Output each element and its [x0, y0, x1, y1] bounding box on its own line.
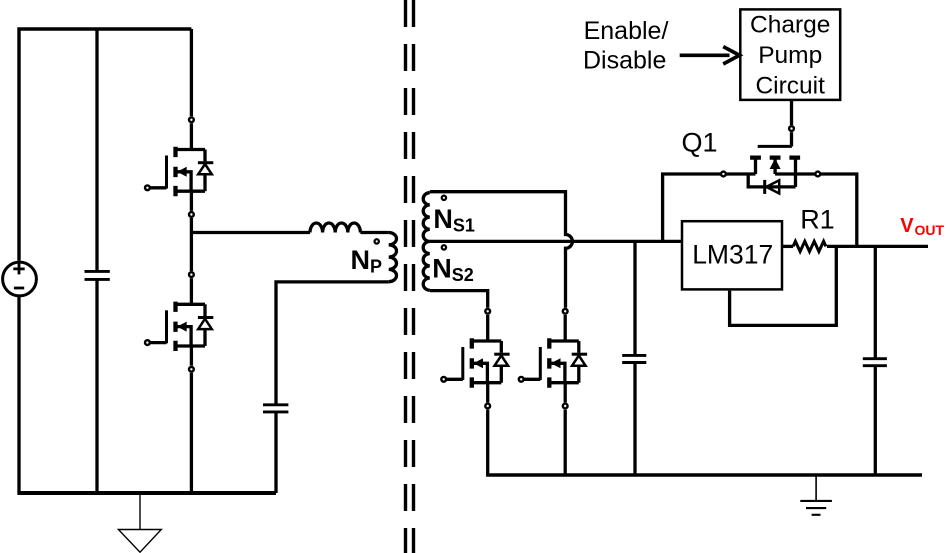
wire capacitor C1 branch top: [95, 29, 98, 271]
svg-text:Enable/: Enable/: [584, 17, 669, 45]
wire capacitor C1 branch bottom: [95, 280, 98, 494]
wire output rail VOUT: [827, 245, 928, 248]
transformer secondary winding NS2: [423, 241, 430, 290]
wire Q1 source to output rail: [820, 174, 857, 246]
transistor Q4 sync rectifier: [441, 309, 509, 409]
wire rail to Q1 drain lead: [663, 174, 721, 241]
wire NS1 top to rectifier Q5 drain: [430, 192, 573, 308]
transistor Q3 low-side MOSFET: [145, 272, 213, 372]
wire NS2 bottom to rectifier Q4 drain: [430, 291, 488, 308]
ground primary: [118, 493, 161, 552]
wire inductor to primary winding: [360, 231, 388, 234]
svg-text:Pump: Pump: [758, 42, 822, 69]
wire LM317 out lead: [782, 245, 793, 248]
wire bottom rail secondary: [486, 473, 922, 477]
wire capacitor C4 branch top: [874, 246, 877, 358]
svg-text:Charge: Charge: [750, 11, 830, 38]
wire Q4 source to bottom rail: [486, 410, 489, 475]
capacitor C2: [263, 405, 288, 412]
svg-text:R1: R1: [800, 204, 835, 234]
inductor series primary: [310, 223, 360, 233]
wire primary winding return: [276, 282, 389, 405]
svg-text:NP: NP: [351, 245, 383, 277]
wire Q5 source to bottom rail: [564, 410, 567, 475]
wire bottom rail primary: [17, 491, 276, 495]
transistor Q1 pass MOSFET: [721, 126, 820, 194]
resistor R1: [793, 241, 826, 251]
wire top rail primary: [19, 29, 191, 261]
node NS1 dot: [442, 196, 446, 200]
capacitor C3: [622, 355, 646, 362]
transformer primary winding NP: [389, 233, 397, 282]
node phase junction wire to inductor: [191, 231, 310, 234]
transistor Q5 sync rectifier: [519, 309, 587, 409]
wire capacitor C3 branch bottom: [633, 363, 636, 475]
transformer secondary winding NS1: [423, 193, 430, 242]
svg-text:Disable: Disable: [583, 46, 666, 74]
wire top rail to Q2 drain: [190, 29, 193, 116]
regulator U1 LM317 box: [682, 221, 782, 289]
svg-text:NS2: NS2: [432, 253, 474, 285]
wire LM317 adj feedback loop: [730, 246, 837, 325]
capacitor C4: [863, 359, 887, 366]
wire voltage source to bottom rail: [17, 296, 20, 493]
svg-text:VOUT: VOUT: [900, 215, 944, 238]
wire Q2 source to mid node: [190, 218, 193, 271]
svg-text:NS1: NS1: [433, 204, 475, 236]
wire center tap rail: [430, 240, 682, 243]
wire capacitor C3 branch top: [633, 241, 636, 355]
wire charge pump output to Q1 gate: [790, 100, 793, 125]
charge pump circuit box: [740, 9, 840, 100]
svg-text:Circuit: Circuit: [755, 72, 825, 99]
capacitor C1: [85, 271, 110, 279]
voltage source V1: [3, 262, 37, 296]
wire capacitor C4 branch bottom: [874, 366, 877, 475]
ground earth secondary: [800, 476, 832, 515]
wire capacitor C2 to bottom rail: [274, 412, 277, 493]
isolation barrier dashed: [406, 0, 414, 553]
svg-text:LM317: LM317: [692, 240, 773, 270]
node NP dot: [375, 239, 379, 243]
arrow enable to charge pump: [680, 47, 740, 64]
node NS2 dot: [442, 245, 446, 249]
transistor Q2 high-side MOSFET: [145, 117, 213, 216]
wire Q3 source to bottom rail: [190, 373, 193, 493]
svg-text:Q1: Q1: [682, 127, 718, 157]
